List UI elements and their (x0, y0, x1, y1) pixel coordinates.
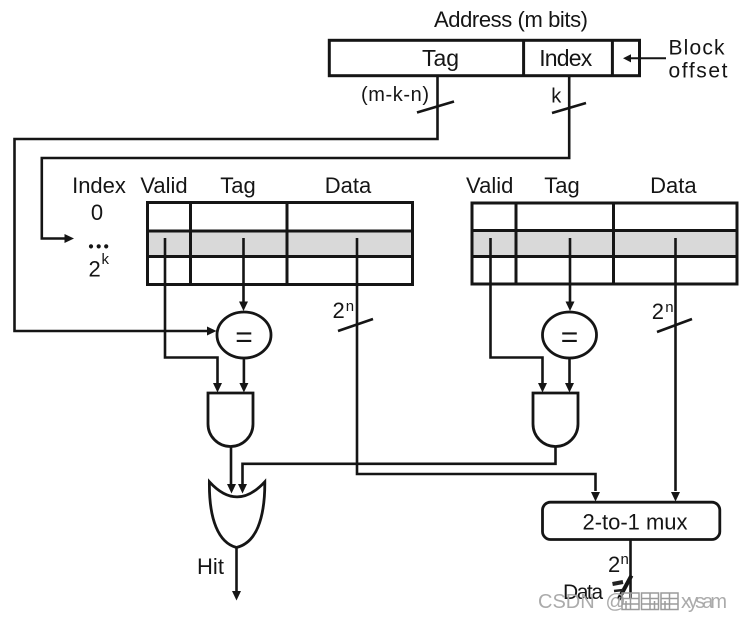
svg-text:CSDN: CSDN (538, 591, 595, 613)
svg-text:Tag: Tag (422, 45, 459, 71)
svg-text:Index: Index (539, 45, 593, 71)
svg-text:n: n (346, 298, 354, 315)
svg-text:Address (m bits): Address (m bits) (434, 7, 588, 32)
svg-text:2: 2 (652, 299, 664, 324)
svg-text:Block: Block (669, 37, 726, 60)
svg-text:Hit: Hit (197, 554, 224, 579)
svg-text:2-to-1 mux: 2-to-1 mux (583, 510, 688, 535)
svg-text:n: n (665, 299, 673, 316)
svg-text:n: n (621, 551, 629, 568)
svg-text:Tag: Tag (544, 173, 579, 198)
svg-text:xysam: xysam (681, 591, 727, 613)
svg-text:0: 0 (91, 200, 103, 225)
svg-text:(m-k-n): (m-k-n) (361, 84, 429, 106)
svg-text:=: = (235, 321, 253, 354)
svg-text:k: k (102, 251, 110, 268)
svg-text:2: 2 (333, 298, 345, 323)
svg-text:Data: Data (650, 173, 697, 198)
svg-text:offset: offset (669, 60, 728, 83)
svg-text:Index: Index (72, 173, 126, 198)
svg-text:k: k (551, 85, 562, 107)
svg-text:Data: Data (325, 173, 372, 198)
svg-text:=: = (561, 321, 579, 354)
svg-text:Tag: Tag (220, 173, 255, 198)
svg-text:2: 2 (608, 552, 620, 577)
svg-text:2: 2 (89, 257, 101, 282)
svg-text:Valid: Valid (466, 173, 513, 198)
svg-text:Valid: Valid (140, 173, 187, 198)
